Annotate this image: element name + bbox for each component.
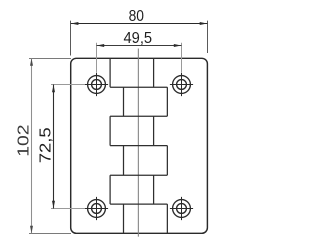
knuckle horizontal joint lines — [110, 87, 167, 204]
hinge plate outline — [71, 58, 208, 233]
knuckle vertical edges: left leaf segments — [110, 58, 154, 204]
dimension 80: arrowheads — [71, 22, 79, 25]
dimension 102: extension lines — [29, 58, 71, 60]
svg-text:80: 80 — [129, 8, 145, 25]
dimension 49,5: dimension line — [97, 45, 182, 47]
dimension 72,5: extension lines — [51, 84, 85, 86]
dimension 102: arrowheads — [30, 58, 33, 66]
svg-text:72,5: 72,5 — [37, 127, 54, 163]
dimension 49,5: extension lines — [96, 43, 98, 73]
knuckle centre line — [137, 49, 139, 237]
knuckle vertical edges: right leaf segments — [124, 87, 168, 233]
screw hole top-left — [85, 73, 108, 96]
screw hole top-right — [170, 73, 193, 96]
svg-text:102: 102 — [15, 125, 32, 157]
dimension 72,5: arrowheads — [52, 85, 55, 93]
dimension 72,5: dimension line — [53, 85, 55, 209]
dimension 102: dimension line — [31, 58, 33, 233]
screw hole bottom-right — [170, 197, 193, 220]
dimension 49,5: arrowheads — [97, 44, 105, 47]
dimension 80: dimension line — [71, 23, 208, 25]
dimension 80: extension lines — [70, 21, 72, 56]
svg-text:49,5: 49,5 — [124, 30, 153, 47]
screw hole bottom-left — [85, 197, 108, 220]
